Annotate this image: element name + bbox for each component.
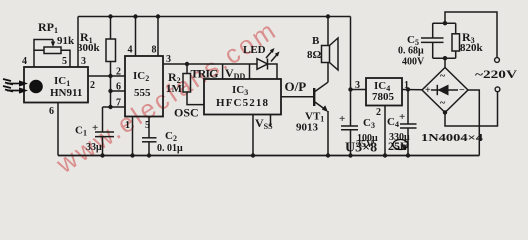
- svg-text:0. 01μ: 0. 01μ: [157, 143, 183, 154]
- resistor R1 vertical line: [110, 17, 112, 40]
- LED emission arrows: [266, 51, 273, 59]
- svg-text:HFC5218: HFC5218: [216, 97, 269, 109]
- svg-text:6: 6: [49, 106, 54, 117]
- wire 555 pin7 / C1 top: [103, 106, 126, 108]
- wire bridge top to C5/R3 node: [444, 58, 446, 67]
- wire RP1 right terminal to IC1 pin5: [61, 50, 70, 67]
- terminal 1: [495, 58, 500, 63]
- svg-text:5: 5: [145, 120, 150, 131]
- wire 555 pin4 from rail: [135, 17, 137, 57]
- capacitor C2 with 555 pin5: [148, 117, 150, 138]
- svg-text:6: 6: [116, 82, 121, 93]
- op IC2 555 box: [125, 56, 163, 117]
- svg-text:7805: 7805: [372, 91, 395, 103]
- svg-text:+: +: [339, 113, 345, 125]
- svg-text:33μ: 33μ: [86, 142, 102, 153]
- capacitor C1: [102, 107, 104, 132]
- wire VSS pin to ground: [252, 115, 254, 156]
- svg-text:400V: 400V: [402, 57, 425, 68]
- svg-text:O/P: O/P: [285, 79, 307, 94]
- svg-text:0. 68μ: 0. 68μ: [398, 46, 424, 57]
- wire IC1 pin3 drop from rail: [77, 17, 79, 68]
- wire 555 pin3 output: [163, 63, 250, 65]
- wire IC1 pin2 to 555 pin2: [88, 75, 125, 77]
- svg-text:−: −: [459, 85, 465, 96]
- svg-text:1: 1: [404, 80, 409, 91]
- svg-text:1N4004×4: 1N4004×4: [421, 132, 484, 144]
- VSS stub: [270, 115, 272, 127]
- transistor VT1 9013: [313, 88, 315, 106]
- svg-text:HN911: HN911: [50, 87, 82, 99]
- svg-text:2: 2: [90, 80, 95, 91]
- wire IC1 pin6 to ground rail: [57, 103, 59, 156]
- svg-text:2: 2: [376, 107, 381, 118]
- wire C5/R3 bottom node: [433, 57, 456, 59]
- svg-text:8: 8: [152, 45, 157, 56]
- ground bottom rail: [58, 155, 479, 157]
- wire C5/R3 top node: [433, 22, 456, 24]
- wire VDD pin: [249, 64, 251, 79]
- watermark www.elecfans.com: [50, 16, 280, 180]
- terminal 2: [495, 87, 500, 92]
- IC1 box HN911: [24, 67, 88, 103]
- svg-text:7: 7: [116, 98, 121, 109]
- wire O/P output to VT1 base: [281, 96, 314, 98]
- resistor R1 body: [106, 39, 116, 62]
- IC3 box HFC5218: [204, 79, 281, 115]
- wire bridge minus to ground: [468, 90, 479, 156]
- wire top node to AC terminal 1: [445, 12, 497, 58]
- wire rail down to IC4 pin3: [350, 17, 352, 127]
- svg-text:+: +: [399, 111, 405, 123]
- svg-text:4: 4: [128, 45, 133, 56]
- wire IC4 pin3: [351, 89, 367, 91]
- bridge inner diode: [431, 89, 458, 91]
- svg-text:~: ~: [440, 71, 446, 82]
- wire bridge bottom to AC terminal 2: [445, 92, 498, 126]
- svg-text:B: B: [312, 35, 320, 47]
- svg-text:1M: 1M: [166, 83, 183, 95]
- svg-text:+: +: [425, 85, 431, 96]
- wire TRIG pin: [222, 64, 224, 79]
- wire RP1 left terminal: [34, 50, 44, 67]
- resistor R2: [186, 64, 188, 74]
- capacitor C3: [341, 125, 358, 127]
- svg-text:555: 555: [134, 87, 151, 99]
- svg-text:820k: 820k: [460, 42, 484, 54]
- resistor R3: [455, 23, 457, 34]
- svg-text:~220V: ~220V: [475, 67, 517, 81]
- potentiometer RP1 body: [44, 47, 61, 54]
- wire IC4 pin2 to ground: [384, 106, 386, 156]
- speaker B: [327, 17, 329, 46]
- svg-text:TRIG: TRIG: [191, 67, 219, 81]
- svg-text:5: 5: [62, 56, 67, 67]
- wire 555 pin1 to ground: [132, 117, 134, 156]
- svg-text:3: 3: [355, 80, 360, 91]
- svg-text:8Ω: 8Ω: [307, 49, 322, 61]
- wire +V top rail: [78, 16, 351, 18]
- svg-text:+: +: [92, 122, 98, 134]
- wire 555 pin8 from rail: [157, 17, 159, 57]
- svg-text:LED: LED: [243, 44, 266, 56]
- svg-text:OSC: OSC: [174, 106, 199, 120]
- IC1 sensor dot: [29, 80, 43, 94]
- RP1 wiper arrow: [52, 40, 54, 46]
- IC4 7805 box: [366, 78, 402, 106]
- wire 555 pin6: [111, 90, 126, 92]
- LED: [250, 63, 258, 65]
- svg-text:4: 4: [22, 56, 27, 67]
- svg-text:2: 2: [116, 67, 121, 78]
- capacitor C5: [432, 23, 434, 38]
- svg-text:3: 3: [166, 54, 171, 65]
- capacitor C4: [407, 90, 409, 125]
- IR arrows into sensor: [3, 79, 21, 92]
- svg-text:1: 1: [125, 120, 130, 131]
- wire RP1 wiper to left terminal: [34, 40, 53, 51]
- svg-text:3: 3: [81, 56, 86, 67]
- svg-text:9013: 9013: [296, 122, 319, 134]
- svg-text:~: ~: [440, 98, 446, 109]
- wire IC4 pin1 to bridge +: [402, 89, 422, 91]
- bridge rectifier diamond 1N4004x4: [422, 68, 468, 113]
- svg-text:300k: 300k: [77, 42, 101, 54]
- svg-text:U3×8: U3×8: [345, 141, 377, 156]
- svg-text:91k: 91k: [57, 35, 75, 47]
